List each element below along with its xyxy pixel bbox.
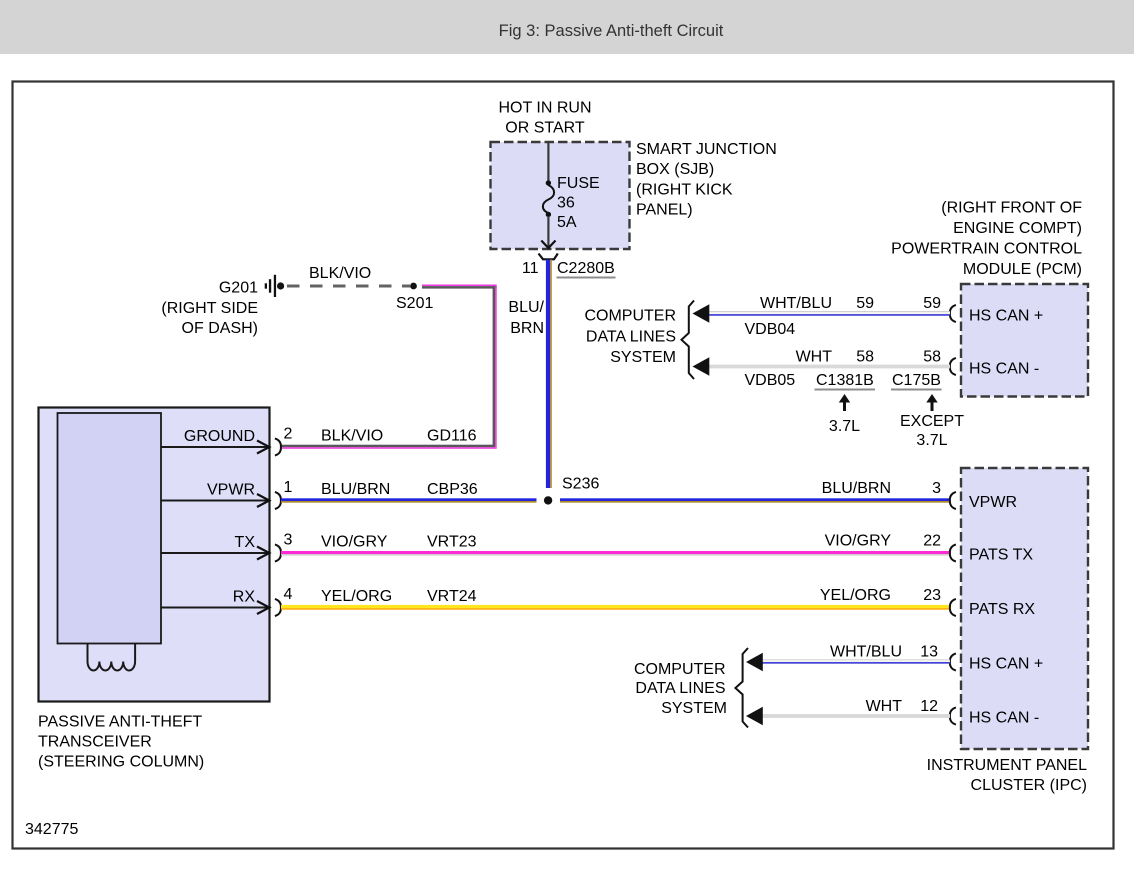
svg-text:(RIGHT SIDE: (RIGHT SIDE <box>161 300 258 317</box>
svg-text:OF DASH): OF DASH) <box>182 320 258 337</box>
svg-text:58: 58 <box>923 349 941 366</box>
svg-text:HS CAN -: HS CAN - <box>969 710 1039 727</box>
svg-text:36: 36 <box>557 195 575 212</box>
svg-text:(RIGHT KICK: (RIGHT KICK <box>636 182 733 199</box>
svg-text:HS CAN +: HS CAN + <box>969 656 1043 673</box>
svg-text:VIO/GRY: VIO/GRY <box>825 533 892 550</box>
svg-text:VDB04: VDB04 <box>745 321 796 338</box>
svg-text:BLK/VIO: BLK/VIO <box>309 265 371 282</box>
svg-text:BLU/BRN: BLU/BRN <box>321 481 390 498</box>
svg-text:13: 13 <box>920 644 938 661</box>
svg-text:TX: TX <box>235 534 256 551</box>
svg-text:1: 1 <box>284 479 293 496</box>
svg-text:MODULE (PCM): MODULE (PCM) <box>963 261 1082 278</box>
svg-text:2: 2 <box>284 426 293 443</box>
svg-text:S201: S201 <box>396 295 433 312</box>
svg-text:TRANSCEIVER: TRANSCEIVER <box>38 734 152 751</box>
svg-text:23: 23 <box>923 587 941 604</box>
svg-text:22: 22 <box>923 533 941 550</box>
svg-text:DATA LINES: DATA LINES <box>635 680 725 697</box>
svg-text:HS CAN -: HS CAN - <box>969 361 1039 378</box>
svg-text:FUSE: FUSE <box>557 175 600 192</box>
svg-text:BOX (SJB): BOX (SJB) <box>636 161 714 178</box>
svg-text:3.7L: 3.7L <box>829 418 860 435</box>
svg-text:COMPUTER: COMPUTER <box>634 661 726 678</box>
svg-text:C2280B: C2280B <box>557 260 615 277</box>
svg-text:PATS RX: PATS RX <box>969 601 1035 618</box>
svg-text:HOT IN RUN: HOT IN RUN <box>498 100 591 117</box>
svg-text:WHT/BLU: WHT/BLU <box>830 644 902 661</box>
svg-text:PANEL): PANEL) <box>636 202 693 219</box>
svg-text:GROUND: GROUND <box>184 428 255 445</box>
svg-text:HS CAN +: HS CAN + <box>969 308 1043 325</box>
svg-text:11: 11 <box>522 260 539 277</box>
svg-text:WHT/BLU: WHT/BLU <box>760 295 832 312</box>
svg-text:BLU/BRN: BLU/BRN <box>822 480 891 497</box>
svg-text:3.7L: 3.7L <box>916 432 947 449</box>
svg-text:12: 12 <box>920 698 938 715</box>
svg-text:SMART JUNCTION: SMART JUNCTION <box>636 141 777 158</box>
svg-text:VRT24: VRT24 <box>427 588 477 605</box>
svg-text:RX: RX <box>233 589 256 606</box>
svg-text:VDB05: VDB05 <box>745 372 796 389</box>
svg-text:GD116: GD116 <box>427 428 477 445</box>
svg-text:3: 3 <box>284 532 293 549</box>
svg-text:VIO/GRY: VIO/GRY <box>321 534 388 551</box>
svg-text:WHT: WHT <box>796 349 833 366</box>
svg-text:OR START: OR START <box>505 120 585 137</box>
svg-text:PASSIVE ANTI-THEFT: PASSIVE ANTI-THEFT <box>38 714 202 731</box>
svg-text:C175B: C175B <box>892 372 941 389</box>
svg-text:3: 3 <box>932 480 941 497</box>
svg-text:COMPUTER: COMPUTER <box>584 308 676 325</box>
svg-text:S236: S236 <box>562 476 599 493</box>
svg-text:YEL/ORG: YEL/ORG <box>820 587 891 604</box>
svg-text:G201: G201 <box>219 280 258 297</box>
svg-text:SYSTEM: SYSTEM <box>661 700 727 717</box>
svg-text:C1381B: C1381B <box>816 372 874 389</box>
svg-text:59: 59 <box>923 295 941 312</box>
svg-text:58: 58 <box>856 349 874 366</box>
svg-text:ENGINE COMPT): ENGINE COMPT) <box>953 220 1082 237</box>
svg-text:(RIGHT FRONT OF: (RIGHT FRONT OF <box>941 200 1082 217</box>
svg-text:342775: 342775 <box>25 821 78 838</box>
svg-text:CLUSTER (IPC): CLUSTER (IPC) <box>971 777 1087 794</box>
svg-text:BLU/: BLU/ <box>508 299 544 316</box>
svg-text:VRT23: VRT23 <box>427 534 477 551</box>
svg-text:WHT: WHT <box>866 698 903 715</box>
svg-text:INSTRUMENT PANEL: INSTRUMENT PANEL <box>927 757 1087 774</box>
svg-text:VPWR: VPWR <box>207 482 255 499</box>
svg-text:CBP36: CBP36 <box>427 481 478 498</box>
svg-text:4: 4 <box>284 586 293 603</box>
svg-text:Fig 3: Passive Anti-theft Circ: Fig 3: Passive Anti-theft Circuit <box>499 22 724 40</box>
svg-text:POWERTRAIN CONTROL: POWERTRAIN CONTROL <box>891 241 1082 258</box>
svg-text:VPWR: VPWR <box>969 494 1017 511</box>
svg-text:(STEERING COLUMN): (STEERING COLUMN) <box>38 754 204 771</box>
svg-text:EXCEPT: EXCEPT <box>900 413 964 430</box>
svg-text:BRN: BRN <box>510 320 544 337</box>
svg-text:5A: 5A <box>557 214 577 231</box>
svg-text:YEL/ORG: YEL/ORG <box>321 588 392 605</box>
svg-text:SYSTEM: SYSTEM <box>610 349 676 366</box>
svg-text:DATA LINES: DATA LINES <box>586 329 676 346</box>
svg-text:PATS TX: PATS TX <box>969 547 1033 564</box>
svg-text:59: 59 <box>856 295 874 312</box>
svg-text:BLK/VIO: BLK/VIO <box>321 428 383 445</box>
